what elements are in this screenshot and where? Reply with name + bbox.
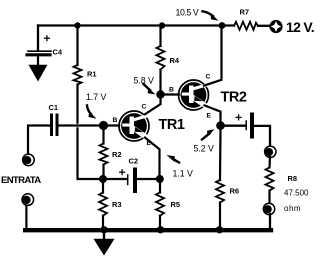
arrow 1.1V [173,159,180,163]
transistor TR2 [179,80,209,110]
wire input to C1 [28,126,50,154]
node rail R4 [159,22,165,28]
wire lower jack to bottom rail [25,206,27,230]
svg-text:R2: R2 [112,150,122,159]
svg-text:B: B [169,87,174,94]
arrow 5.8V [144,84,151,90]
svg-text:47.500: 47.500 [284,189,309,198]
wire bottom rail [25,228,271,232]
wire top rail right of R7 [258,25,270,27]
resistor R7 [234,22,258,30]
node TR2 emitter [216,121,225,130]
svg-text:C2: C2 [129,157,139,166]
node TR1 collector / TR2 base [156,90,164,98]
TR2 emitter lead [205,105,221,122]
svg-text:ENTRATA: ENTRATA [1,175,41,186]
wire node to C2 [107,178,128,180]
node rail R6 [216,226,223,233]
node rail TR2 [219,22,226,29]
output jack lower [263,203,274,214]
arrow 10.5V [203,11,214,16]
node TR1 base [99,121,108,130]
capacitor C2 [127,175,129,185]
resistor R5 [159,183,161,193]
wire R1 bottom lead crossing base wire [76,85,78,123]
node TR1 emitter [156,175,164,183]
C2 plus sign [120,170,125,175]
svg-text:ohm: ohm [284,204,301,213]
wire top rail left segment [38,24,234,26]
wire TR2 base [165,93,180,95]
svg-text:1.1 V: 1.1 V [173,169,193,179]
resistor R3 [102,183,104,193]
svg-text:R4: R4 [170,56,180,65]
svg-text:R5: R5 [171,200,181,209]
svg-text:C: C [206,74,211,81]
svg-text:10.5 V: 10.5 V [176,8,199,18]
wire from crossing down to R2 bottom node [78,128,103,179]
resistor R6 [219,130,222,181]
input jack lower [22,194,34,206]
capacitor C1 [50,115,53,135]
TR2 collector lead [204,27,222,86]
C3 plus sign [236,115,241,120]
transistor TR1 [119,111,149,141]
wire C4 branch drop [37,26,39,51]
svg-text:5.8 V: 5.8 V [134,76,154,86]
resistor R4 [159,27,161,47]
capacitor C4 [28,50,51,52]
wire emitter node to C3 [225,125,246,127]
TR1 collector lead [145,91,161,114]
C4 plus sign [45,36,50,41]
wire R1 top lead [76,26,78,66]
svg-text:TR2: TR2 [221,90,247,106]
node on rail at R1 [74,22,80,28]
svg-text:R6: R6 [230,187,240,196]
input jack upper [23,154,35,166]
wire lower output jack to rail [269,214,271,230]
svg-text:C: C [142,104,147,111]
svg-text:5.2 V: 5.2 V [194,144,214,154]
resistor R8 [268,157,271,168]
resistor R1 [74,65,82,85]
svg-text:12 V.: 12 V. [286,19,314,35]
svg-text:R1: R1 [87,70,97,79]
svg-text:C4: C4 [53,48,63,57]
resistor R2 [102,129,104,144]
arrow 5.2V [202,134,210,140]
svg-text:B: B [113,117,118,124]
capacitor C3 [245,121,247,130]
ground under C4 [29,65,48,82]
svg-text:E: E [147,140,152,147]
node R2/R3/C2 [99,175,107,183]
svg-text:R8: R8 [288,174,298,183]
battery terminal 12V [269,20,282,33]
ground main [103,232,105,240]
arrow 1.7V [87,106,91,115]
svg-text:C1: C1 [49,103,59,112]
TR1 emitter lead [145,138,160,176]
svg-text:E: E [207,113,212,120]
svg-text:1.7 V: 1.7 V [86,92,106,102]
node rail R5 [157,226,164,233]
output jack upper [265,146,276,157]
svg-text:R3: R3 [112,200,122,209]
svg-text:TR1: TR1 [159,117,185,133]
node rail R3 [100,226,107,233]
wire C1 to TR1 base [59,124,119,126]
svg-text:R7: R7 [240,8,250,17]
